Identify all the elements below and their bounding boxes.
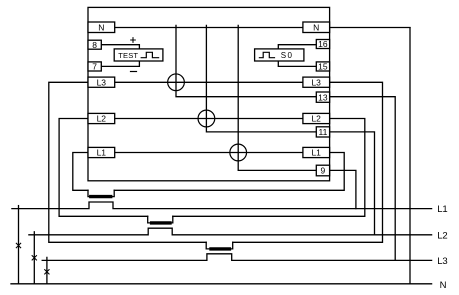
terminal box L3 left [88, 77, 115, 87]
terminal box 16 [316, 40, 329, 49]
node junction nub V1 at N bus [175, 25, 177, 27]
wire left drop L2 to N with isolating point [33, 232, 35, 284]
wire voltage element 2 vertical (N bus through circle to terminal 11) [206, 28, 316, 132]
CT2 primary bar [152, 221, 170, 224]
svg-text:N: N [440, 280, 447, 291]
wire left stub L1 to CT1 secondary left lead [73, 153, 88, 191]
isolating point x mark 1 [16, 243, 20, 247]
CT1 primary bar [91, 195, 111, 198]
svg-text:8: 8 [92, 40, 97, 50]
svg-text:15: 15 [318, 62, 328, 72]
meter outline [88, 7, 330, 180]
wire internal phase line L3 [115, 81, 303, 83]
terminal box N left [88, 22, 115, 33]
svg-text:7: 7 [92, 62, 97, 72]
terminal box 8 [88, 40, 101, 49]
wire voltage element 3 vertical (N bus through circle to terminal 9) [238, 28, 316, 171]
node junction nub V2 at N bus [205, 25, 207, 27]
wire internal phase line L2 [115, 118, 303, 120]
wire N output line [11, 283, 432, 285]
svg-text:L2: L2 [311, 114, 321, 124]
terminal box 13 [316, 92, 329, 102]
terminal box L1 right [303, 147, 330, 157]
wire left stub L3 to CT3 secondary left lead [49, 82, 206, 242]
pulse symbol in TEST box [141, 52, 158, 57]
terminal box 11 [316, 127, 329, 137]
svg-text:L3: L3 [437, 256, 447, 267]
wire N drop to N output line [409, 28, 411, 284]
S0 box [255, 49, 304, 61]
svg-text:L1: L1 [311, 148, 321, 158]
wire voltage element 1 vertical (N bus through circle to terminal 13) [176, 28, 317, 97]
pulse symbol in S0 box [259, 52, 274, 57]
wire left stub L2 to CT2 secondary left lead [59, 119, 148, 217]
svg-text:9: 9 [321, 166, 326, 176]
svg-text:L3: L3 [311, 77, 321, 87]
terminal box N right [303, 22, 330, 33]
terminal box 9 [316, 165, 329, 176]
wire terminal 13 to L3 output line [330, 97, 396, 261]
svg-text:L1: L1 [97, 148, 107, 158]
wire right L2 box to CT2 secondary right lead [173, 119, 365, 217]
wire left drop L1 to N with isolating point [18, 206, 20, 284]
wire L3 output line with jog through CT3 [42, 254, 431, 261]
polarity minus label [131, 71, 137, 73]
wire terminal 9 to L1 output line [330, 170, 356, 208]
CT3 secondary step left [206, 242, 211, 249]
N bus (left N box to right N box) [115, 27, 304, 29]
wire internal phase line L1 [115, 152, 303, 154]
terminal box 7 [88, 62, 101, 71]
svg-text:S0: S0 [281, 51, 294, 60]
CT1 secondary step left [88, 190, 91, 196]
svg-text:L1: L1 [437, 204, 447, 215]
wire terminal 11 to L2 output line [330, 132, 375, 235]
svg-text:L2: L2 [437, 231, 447, 242]
CT2 secondary step left [148, 216, 152, 223]
terminal box L2 left [88, 113, 115, 123]
node junction nub V3 at N bus [237, 25, 239, 27]
wire L1 output line with jog through CT1 [12, 202, 432, 209]
measuring element circle 3 (L1) [230, 144, 247, 161]
measuring element circle 2 (L2) [198, 110, 215, 127]
isolating point x mark 2 [32, 256, 36, 260]
wire right L3 box to CT3 secondary right lead [233, 82, 383, 242]
CT1 secondary step right [111, 190, 115, 196]
CT3 primary bar [211, 247, 229, 250]
svg-text:TEST: TEST [118, 51, 138, 60]
wire L2 output line with jog through CT2 [29, 228, 432, 235]
polarity plus label [131, 38, 136, 43]
svg-text:N: N [98, 23, 104, 33]
terminal box 15 [316, 62, 329, 71]
terminal box L2 right [303, 113, 330, 123]
svg-text:N: N [313, 23, 319, 33]
CT3 secondary step right [229, 242, 232, 249]
wire terminal 7 to TEST box [101, 61, 139, 66]
N bus right extension to drop [330, 27, 410, 29]
wire terminal 8 to TEST box [101, 45, 139, 49]
wire left drop L3 to N with isolating point [46, 257, 48, 283]
wire right L1 box to CT1 secondary right lead [114, 153, 344, 191]
CT2 secondary step right [170, 216, 173, 223]
wire terminal 16 to S0 box [278, 45, 316, 49]
terminal box L1 left [88, 147, 115, 157]
wire terminal 15 to S0 box [278, 61, 316, 66]
svg-text:L2: L2 [97, 114, 107, 124]
svg-text:13: 13 [318, 92, 328, 102]
isolating point x mark 3 [45, 270, 49, 274]
TEST box [114, 49, 163, 61]
svg-text:L3: L3 [97, 77, 107, 87]
terminal box L3 right [303, 77, 330, 87]
measuring element circle 1 (L3) [168, 74, 185, 91]
svg-text:11: 11 [318, 127, 327, 137]
svg-text:16: 16 [318, 39, 328, 49]
